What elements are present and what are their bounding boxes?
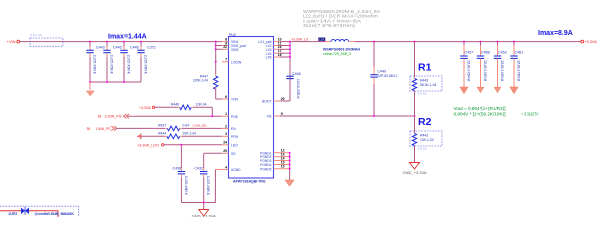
- pin 22 VIN3: [222, 45, 238, 52]
- wire VIN pins connector: [215, 41, 222, 63]
- svg-text:1U/25-X6R-K: 1U/25-X6R-K: [184, 176, 188, 196]
- off-page 1.8VA_PG / resistor R437 / wire EN: [87, 124, 223, 131]
- svg-text:C445: C445: [113, 46, 122, 50]
- svg-text:Vout = 0.804*[1+(R1/R2)]: Vout = 0.804*[1+(R1/R2)]: [454, 106, 506, 111]
- svg-text:25: 25: [223, 149, 227, 153]
- svg-text:C443: C443: [96, 46, 105, 50]
- svg-text:A5~1B: A5~1B: [418, 147, 427, 151]
- ground (input caps): [86, 82, 94, 96]
- pin 5 FB: [267, 112, 283, 119]
- pin 20 BOOT: [262, 97, 285, 104]
- svg-text:6: 6: [225, 95, 227, 99]
- pin 18 LX5: [266, 53, 282, 60]
- pin 2 EN: [222, 124, 236, 131]
- pin 16 LX3: [266, 45, 282, 52]
- svg-text:PGND5: PGND5: [260, 167, 272, 171]
- svg-text:4: 4: [225, 165, 227, 169]
- svg-text:220K-1-04: 220K-1-04: [193, 79, 208, 83]
- svg-text:APW7166AQBI-TRG: APW7166AQBI-TRG: [233, 179, 266, 184]
- svg-text:1.8VA_PG: 1.8VA_PG: [96, 127, 111, 131]
- svg-text:R2: R2: [418, 116, 432, 128]
- svg-text:GND_+3.3VA: GND_+3.3VA: [403, 171, 428, 175]
- svg-text:LDO: LDO: [231, 143, 238, 147]
- svg-text:2: 2: [225, 124, 227, 128]
- svg-text:22U/6.3-X5R-M: 22U/6.3-X5R-M: [500, 60, 504, 81]
- svg-text:C468: C468: [481, 50, 490, 54]
- svg-text:20: 20: [281, 97, 285, 101]
- svg-text:C436: C436: [173, 166, 182, 170]
- resistor R2 divider bottom: [410, 116, 442, 163]
- svg-text:38: 38: [87, 127, 91, 131]
- capacitor C432 (SS): [195, 153, 223, 202]
- svg-text:BOOT: BOOT: [262, 100, 271, 104]
- IC PU2 APW7166AQBI-TRG: [229, 33, 274, 184]
- pin 17 LX4: [266, 49, 282, 56]
- wire BOOT: [280, 100, 290, 102]
- svg-text:22U/6.3-X5R-M: 22U/6.3-X5R-M: [467, 60, 471, 81]
- svg-text:3.3VA_PG: 3.3VA_PG: [105, 115, 122, 119]
- node +3.3VA port right: [581, 39, 597, 44]
- svg-text:0-04: 0-04: [183, 124, 190, 128]
- wire LX to inductor: [290, 41, 326, 43]
- svg-text:LOGIN: LOGIN: [231, 60, 242, 64]
- svg-text:10K-1-04: 10K-1-04: [420, 138, 434, 142]
- svg-text:24: 24: [223, 141, 227, 145]
- svg-text:R440: R440: [171, 102, 179, 106]
- svg-text:R442: R442: [420, 133, 428, 137]
- svg-text:GND_+3.3VA: GND_+3.3VA: [192, 215, 217, 218]
- svg-text:1: 1: [225, 112, 227, 116]
- svg-text:R444: R444: [158, 132, 166, 136]
- pin 19 PGND5: [260, 165, 289, 172]
- svg-text:+3.3VA: +3.3VA: [139, 106, 151, 110]
- svg-text:AGND: AGND: [231, 168, 241, 172]
- pin 12 PGND1: [260, 149, 289, 156]
- svg-text:8.5(~14): 8.5(~14): [31, 33, 42, 37]
- svg-text:+3.3VA_LDO: +3.3VA_LDO: [137, 143, 159, 147]
- svg-text:56.2K-1-04: 56.2K-1-04: [420, 83, 436, 87]
- capacitor C443: [86, 41, 104, 82]
- wire output rail: [355, 41, 582, 43]
- wire FB line: [280, 115, 416, 117]
- pin 15 PGND4: [260, 160, 289, 167]
- pin 14 PGND3: [260, 156, 289, 163]
- svg-text:1U/25-X6R-K: 1U/25-X6R-K: [206, 176, 210, 196]
- pin 7 LOGIN: [222, 58, 242, 65]
- pin 11 LX2: [266, 41, 282, 48]
- svg-text:A5~1B: A5~1B: [418, 92, 427, 96]
- svg-text:22U/6.3-X5R-M: 22U/6.3-X5R-M: [517, 60, 521, 81]
- wire caps bottom rail: [89, 81, 141, 83]
- ground GND_+3.3VA (analog): [192, 203, 217, 219]
- capacitor C461: [510, 41, 523, 94]
- pin 1 POK: [222, 112, 239, 119]
- svg-text:R443: R443: [420, 78, 428, 82]
- capacitor C446: [120, 41, 138, 82]
- svg-text:19: 19: [281, 165, 285, 169]
- svg-text:R437: R437: [158, 124, 166, 128]
- wire input rail: [20, 41, 222, 43]
- wire PGND collector: [289, 152, 291, 180]
- capacitor C468: [477, 41, 490, 93]
- ground (PGND): [285, 180, 294, 186]
- pin 4 AGND: [215, 165, 241, 172]
- svg-text:+3.3VA_LX: +3.3VA_LX: [291, 38, 309, 42]
- node +VIN port: [7, 39, 20, 44]
- svg-text:Imax=1.44A: Imax=1.44A: [108, 34, 147, 41]
- node +3.3VA_LDO port / wire LDO: [137, 143, 222, 147]
- capacitor C448 (boot): [286, 72, 300, 100]
- svg-text:38: 38: [98, 115, 102, 119]
- pin 3 PFM: [222, 132, 238, 139]
- svg-text:C453: C453: [498, 50, 507, 54]
- svg-text:Imax=8.9A: Imax=8.9A: [538, 30, 573, 37]
- svg-text:3: 3: [225, 132, 227, 136]
- svg-text:@xxxfbff-f54B_MMASK: @xxxfbff-f54B_MMASK: [35, 212, 75, 216]
- svg-text:GJP2: GJP2: [9, 212, 18, 216]
- svg-text:+VIN: +VIN: [7, 39, 16, 44]
- node +3.3VA port (POK pullup): [139, 106, 155, 110]
- ferrite bead dashed box: [30, 33, 63, 46]
- pin 25 SS: [222, 149, 236, 156]
- svg-text:+3.3VA: +3.3VA: [584, 39, 597, 44]
- pin 24 LDO: [222, 141, 238, 148]
- svg-text:LX5: LX5: [266, 56, 272, 60]
- svg-text:C457: C457: [465, 50, 474, 54]
- wire AGND branch: [181, 170, 215, 204]
- svg-text:C372: C372: [147, 46, 156, 50]
- wire TON: [216, 98, 222, 100]
- svg-text:china-720_508_3: china-720_508_3: [323, 52, 351, 56]
- svg-text:20K-1-04: 20K-1-04: [183, 132, 197, 136]
- spec text block: [303, 9, 380, 28]
- pin 8 VIN1: [222, 37, 238, 44]
- svg-text:1U/25-X5R-K: 1U/25-X5R-K: [93, 55, 97, 75]
- svg-text:C432: C432: [195, 166, 204, 170]
- wire LX bus: [280, 41, 291, 101]
- svg-text:C461: C461: [515, 50, 524, 54]
- formula text: [454, 106, 539, 116]
- svg-text:0.804V * [1+(56.2K/10K)]: 0.804V * [1+(56.2K/10K)]: [454, 112, 506, 117]
- resistor R447: [193, 62, 218, 99]
- svg-text:3.3VA_EN: 3.3VA_EN: [192, 124, 206, 128]
- pin 9 VIN2_pad: [222, 41, 246, 48]
- svg-text:Size(7.6*6.8*3mm): Size(7.6*6.8*3mm): [303, 23, 356, 28]
- svg-text:VIN3: VIN3: [231, 48, 238, 52]
- pin 10 LX1_pad: [258, 37, 281, 44]
- svg-text:L18: L18: [319, 38, 324, 42]
- svg-text:7: 7: [225, 58, 227, 62]
- inductor L18: [318, 38, 360, 57]
- pin 6 TON: [222, 95, 239, 102]
- net tie GJP2 box: [0, 206, 79, 217]
- pin 13 PGND2: [260, 153, 289, 160]
- svg-text:1U/25-X5R-K: 1U/25-X5R-K: [144, 55, 148, 75]
- svg-text:1U/25-X5R-K: 1U/25-X5R-K: [110, 55, 114, 75]
- svg-text:22: 22: [223, 45, 227, 49]
- capacitor C453: [494, 41, 507, 93]
- svg-text:TON: TON: [231, 98, 239, 102]
- svg-text:22U/6.3-X5R-M: 22U/6.3-X5R-M: [483, 60, 487, 81]
- ground GND_+3.3VA (divider): [403, 163, 428, 176]
- off-page arrow / resistor R444 / wire PFM: [137, 132, 222, 140]
- capacitor C457: [460, 41, 473, 94]
- off-page 3.3VA_PG / wire POK: [98, 114, 223, 119]
- svg-text:C446: C446: [130, 46, 139, 50]
- capacitor C445: [103, 41, 121, 82]
- capacitor C372: [137, 41, 155, 82]
- capacitor C449: [370, 41, 397, 116]
- svg-text:= 3.3162TV: = 3.3162TV: [522, 112, 539, 117]
- svg-text:5: 5: [281, 112, 283, 116]
- svg-text:PU2: PU2: [229, 33, 236, 37]
- resistor R1 divider top: [410, 41, 442, 116]
- resistor R440: [155, 102, 213, 116]
- svg-text:PFM: PFM: [231, 135, 238, 139]
- svg-text:POK: POK: [231, 115, 239, 119]
- capacitor C436: [173, 145, 188, 203]
- svg-text:1U/25-X5R-K: 1U/25-X5R-K: [127, 55, 131, 75]
- svg-text:10K-04: 10K-04: [196, 102, 207, 106]
- svg-text:R1: R1: [418, 62, 432, 74]
- svg-text:C448: C448: [292, 72, 301, 76]
- svg-text:EN: EN: [231, 127, 236, 131]
- svg-text:1U/16-X5R-K: 1U/16-X5R-K: [296, 79, 300, 100]
- svg-text:22P-50-04N-J: 22P-50-04N-J: [378, 74, 398, 78]
